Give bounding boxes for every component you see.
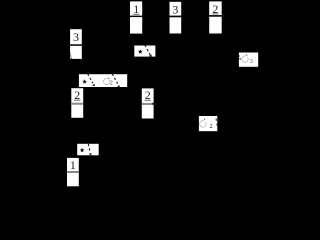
node F separator <box>142 103 154 105</box>
svg-text:3: 3 <box>250 58 253 65</box>
wire dashed arrow 2 through I <box>112 74 117 84</box>
wire dashed crossing node K left edge <box>239 55 241 60</box>
edge label I: star + rotation box <box>79 74 127 87</box>
svg-text:3: 3 <box>73 30 79 44</box>
node F underline <box>145 99 151 102</box>
arrowhead at node F right edge <box>152 102 155 106</box>
edge label J: star box bottom <box>77 144 99 156</box>
node C label box (2 underlined) <box>209 1 222 15</box>
wire dashed arrow 1 through I <box>88 74 93 83</box>
node F: domino column middle <box>142 88 154 118</box>
rotation glyph circlearrow2 in L <box>200 121 206 127</box>
edge label L: rotation 2 box <box>199 116 217 131</box>
star in H <box>138 49 143 54</box>
node C underline <box>212 13 218 16</box>
node B empty box <box>170 17 182 33</box>
node A underline <box>133 13 139 16</box>
wire dashed arrow through H <box>145 45 151 56</box>
edge label K: rotation 3 box <box>239 53 258 67</box>
wire dashed crossing node D left edge <box>70 53 72 59</box>
node G separator <box>67 171 79 172</box>
svg-text:3: 3 <box>172 2 178 16</box>
node D label box (3) <box>70 29 82 44</box>
node G: domino column bottom <box>67 158 79 186</box>
node A label box (1 underlined) <box>130 1 142 15</box>
wire dashed crossing node L right edge <box>216 119 217 128</box>
svg-text:2: 2 <box>210 123 213 130</box>
star in I <box>82 79 87 84</box>
edge label H: star box <box>134 46 155 57</box>
rotation glyph circlearrow3 in K <box>242 56 248 62</box>
wire dashed arrow through J <box>88 144 90 153</box>
node E: domino column left-lower <box>71 88 83 118</box>
node D empty box <box>70 46 82 59</box>
node B label box (3) <box>170 2 182 16</box>
node E underline <box>74 99 80 102</box>
svg-text:1: 1 <box>70 158 76 172</box>
rotation glyph circlearrow2 in I <box>103 78 109 84</box>
svg-text:2: 2 <box>110 80 113 86</box>
node C empty box <box>209 17 222 34</box>
node A empty box <box>130 17 142 33</box>
node E separator <box>71 103 83 105</box>
star in J <box>80 148 85 153</box>
